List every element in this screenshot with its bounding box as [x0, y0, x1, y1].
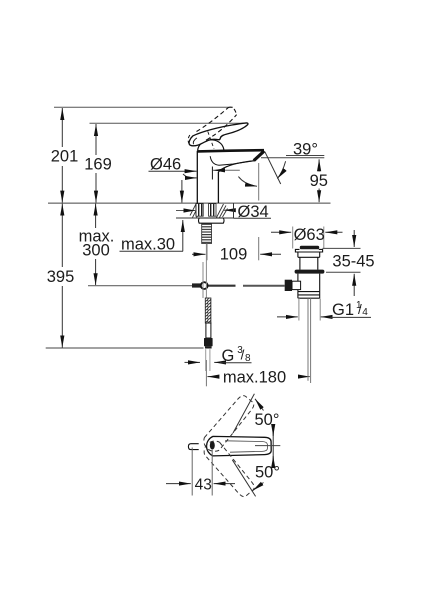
- wire: deck bottom line: [176, 217, 234, 219]
- dimension 395: [61, 204, 63, 267]
- handle dot: [210, 441, 215, 449]
- cap skirt: [295, 249, 322, 252]
- handle centerline: [255, 445, 280, 447]
- bottom nut: [298, 292, 320, 299]
- svg-text:50°: 50°: [255, 464, 280, 482]
- svg-text:169: 169: [84, 155, 112, 173]
- lower body: [298, 274, 320, 292]
- Ø63 arrows: [271, 231, 291, 233]
- svg-text:G1: G1: [332, 301, 354, 319]
- svg-text:395: 395: [47, 268, 75, 286]
- svg-text:95: 95: [310, 172, 328, 190]
- hose end nut: [204, 338, 213, 346]
- pop-up rod horizontal line: [88, 285, 192, 287]
- dimension 109: [206, 244, 208, 261]
- 39° arc arrow left: [238, 177, 257, 187]
- dimension 35-45: [323, 247, 361, 249]
- G1 1/4 label: [277, 316, 298, 318]
- faucet body right edge: [217, 172, 219, 203]
- svg-text:300: 300: [82, 241, 110, 259]
- handle end dim arrows: [272, 429, 274, 463]
- Ø34 arrows: [176, 210, 195, 212]
- lever nose hook inner line: [193, 138, 197, 144]
- deck hatch right: [217, 204, 228, 218]
- lever pivot dashed axis: [208, 132, 214, 150]
- dimension 201: [61, 108, 63, 147]
- spout underside outer curve: [218, 161, 253, 172]
- dimension 43: [191, 448, 193, 496]
- Ø34 step + underline: [233, 203, 235, 218]
- supply hose upper: [202, 262, 204, 298]
- shank wall left (threaded): [196, 204, 203, 217]
- tailpipe: [307, 298, 309, 381]
- Ø46 second arrow: [183, 174, 190, 178]
- spout top surface: [197, 150, 264, 151]
- wire: top extension line (raised handle height): [54, 106, 233, 108]
- arrow to spout inner wall: [213, 169, 240, 171]
- svg-text:G: G: [222, 347, 235, 365]
- svg-text:35-45: 35-45: [332, 252, 374, 270]
- hose braided section: [205, 298, 211, 323]
- shank wall right (threaded): [209, 204, 216, 217]
- deck hatch left: [190, 204, 202, 218]
- washer under deck: [199, 218, 225, 223]
- dashed handle rotated down: [200, 437, 256, 499]
- cartridge dome: [198, 140, 224, 151]
- svg-text:201: 201: [51, 148, 79, 166]
- barrel: [300, 257, 318, 270]
- rod adjuster bar: [192, 283, 201, 287]
- rod joint ring: [201, 282, 208, 289]
- svg-text:/: /: [241, 348, 245, 363]
- dimension 169: [95, 124, 97, 155]
- handle top view solid: [207, 436, 272, 456]
- dashed handle rotated up: [200, 393, 256, 455]
- faucet body left edge: [196, 151, 198, 203]
- lever port white: [292, 281, 301, 289]
- svg-text:8: 8: [245, 353, 251, 364]
- svg-text:4: 4: [362, 307, 368, 318]
- svg-text:Ø63: Ø63: [294, 226, 325, 244]
- dimension max.300: [95, 204, 97, 228]
- svg-text:max.180: max.180: [223, 368, 286, 386]
- lever port black: [285, 280, 292, 291]
- faucet body group: [188, 107, 264, 203]
- 50° lower extension line: [232, 460, 255, 497]
- handle inner contour: [225, 441, 267, 452]
- svg-text:Ø34: Ø34: [238, 203, 269, 221]
- G 3/8 label: [185, 361, 201, 363]
- svg-text:109: 109: [220, 245, 248, 263]
- hose nipple tube: [206, 323, 211, 338]
- lever handle (rest position): [189, 123, 248, 146]
- deck hole / shank section: [176, 203, 271, 244]
- 39° slope line from spout tip: [265, 152, 281, 184]
- 50° upper extension line: [233, 394, 254, 433]
- raised lever nose dashed arc: [188, 135, 190, 145]
- handle nub: [188, 444, 198, 450]
- max.30 upper arrow: [181, 180, 183, 203]
- hose tail lines: [205, 349, 207, 371]
- neck: [298, 252, 320, 257]
- aerator face band: [254, 151, 264, 161]
- 39° arc arrow right: [277, 161, 285, 178]
- svg-text:43: 43: [195, 476, 212, 493]
- wire: 169 extension line (handle rest height): [90, 122, 247, 124]
- dimension max.180: [205, 360, 207, 386]
- wire: bottom reference line (395): [46, 347, 204, 349]
- spout inner contour: [210, 156, 256, 165]
- 39° reference double line: [261, 157, 324, 159]
- svg-text:50°: 50°: [255, 411, 280, 429]
- spout inner vertical stub: [211, 167, 213, 180]
- dimension 95: [318, 159, 320, 171]
- Ø63 ext lines: [292, 227, 294, 249]
- seal flange (dark): [295, 270, 325, 274]
- threaded shank rod: [202, 224, 212, 244]
- raised lever tip dashed arc: [228, 107, 237, 114]
- wire: deck line left: [48, 202, 331, 204]
- raised lever (dashed) upper line: [206, 115, 237, 141]
- drain plug cap: [300, 246, 319, 250]
- raised lever (dashed) lower line: [197, 108, 229, 132]
